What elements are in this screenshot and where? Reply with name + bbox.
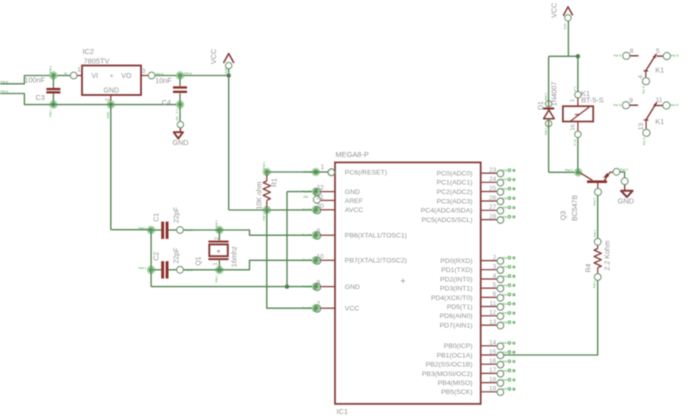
svg-text:SUP: SUP: [563, 23, 567, 29]
svg-text:GN: GN: [175, 116, 179, 120]
svg-text:19: 19: [489, 386, 497, 393]
svg-text:18: 18: [489, 376, 497, 383]
svg-text:10K ohm: 10K ohm: [257, 181, 264, 209]
svg-text:12: 12: [489, 310, 497, 317]
svg-text:2: 2: [215, 237, 221, 240]
svg-text:PD6(AIN0): PD6(AIN0): [440, 313, 473, 320]
svg-text:Q1: Q1: [196, 256, 203, 265]
svg-text:PC2(ADC2): PC2(ADC2): [437, 189, 473, 196]
svg-text:GND: GND: [173, 138, 189, 147]
svg-text:PB3(MOSI/OC2): PB3(MOSI/OC2): [422, 371, 473, 378]
svg-text:3: 3: [142, 68, 146, 75]
svg-text:22pF: 22pF: [174, 207, 181, 223]
svg-text:9: 9: [629, 98, 633, 105]
svg-text:PW D: PW D: [1, 80, 10, 84]
svg-text:PC3(ADC3): PC3(ADC3): [437, 198, 473, 205]
svg-text:2.2 Kohm: 2.2 Kohm: [605, 240, 612, 270]
svg-text:Par D: Par D: [614, 53, 623, 57]
svg-text:PC6(/RESET): PC6(/RESET): [345, 169, 387, 176]
svg-text:PD4(XCK/T0): PD4(XCK/T0): [431, 295, 473, 302]
svg-text:PW: PW: [503, 360, 508, 364]
svg-text:PW 1: PW 1: [49, 109, 53, 117]
svg-text:PW: PW: [503, 293, 508, 297]
svg-text:PW: PW: [503, 369, 508, 373]
svg-text:22pF: 22pF: [174, 248, 181, 264]
svg-text:Pad D: Pad D: [303, 189, 312, 193]
svg-text:PW: PW: [503, 341, 508, 345]
svg-text:PW: PW: [304, 195, 309, 199]
svg-text:BC547B: BC547B: [572, 195, 579, 221]
svg-text:VCC: VCC: [550, 3, 559, 18]
svg-text:Q3: Q3: [561, 211, 568, 220]
svg-text:PB5(SCK): PB5(SCK): [441, 389, 472, 396]
svg-text:MEGA8-P: MEGA8-P: [336, 150, 369, 159]
svg-text:PW: PW: [503, 169, 508, 173]
svg-text:PB1(OC1A): PB1(OC1A): [437, 352, 473, 359]
svg-text:GND: GND: [104, 87, 120, 94]
svg-text:Par D: Par D: [613, 103, 622, 107]
svg-text:VCC: VCC: [345, 306, 359, 313]
svg-text:5: 5: [493, 282, 497, 289]
svg-text:K1: K1: [655, 66, 664, 75]
svg-text:16mhz: 16mhz: [232, 246, 239, 268]
svg-text:PD5(T1): PD5(T1): [447, 304, 473, 311]
svg-text:D1: D1: [538, 101, 545, 110]
svg-text:10: 10: [317, 253, 325, 260]
svg-text:C2: C2: [153, 252, 160, 261]
svg-text:Pad D: Pad D: [303, 233, 312, 237]
svg-text:15: 15: [489, 349, 497, 356]
svg-text:PW: PW: [503, 274, 508, 278]
svg-text:13: 13: [489, 319, 497, 326]
svg-text:PD1(TXD): PD1(TXD): [441, 267, 472, 274]
svg-text:PW: PW: [503, 321, 508, 325]
svg-text:VO: VO: [121, 73, 132, 80]
svg-text:C3: C3: [36, 93, 45, 102]
svg-text:PD3(INT1): PD3(INT1): [440, 286, 472, 293]
svg-text:Pad D: Pad D: [303, 306, 312, 310]
svg-text:PW 1: PW 1: [593, 280, 597, 288]
svg-text:+: +: [400, 276, 405, 286]
svg-text:GND: GND: [345, 189, 360, 196]
svg-text:IC1: IC1: [337, 407, 349, 416]
svg-text:PW: PW: [503, 196, 508, 200]
svg-text:IC2: IC2: [83, 47, 95, 56]
svg-text:PW: PW: [503, 215, 508, 219]
svg-text:9: 9: [317, 228, 321, 235]
svg-text:PW: PW: [503, 178, 508, 182]
svg-text:16: 16: [570, 124, 576, 130]
svg-text:1N4007: 1N4007: [551, 82, 558, 107]
svg-text:P 1: P 1: [573, 86, 577, 91]
svg-text:25: 25: [489, 185, 497, 192]
svg-text:PW 1: PW 1: [215, 220, 219, 228]
svg-text:C1: C1: [153, 213, 160, 222]
svg-text:PW 1: PW 1: [262, 213, 266, 221]
svg-text:PW: PW: [503, 378, 508, 382]
svg-text:8: 8: [630, 48, 634, 55]
svg-text:PW: PW: [503, 206, 508, 210]
svg-text:2: 2: [493, 254, 497, 261]
svg-text:3: 3: [493, 264, 497, 271]
svg-text:PC4(ADC4/SDA): PC4(ADC4/SDA): [421, 208, 473, 215]
svg-text:GND: GND: [618, 196, 634, 205]
svg-text:4: 4: [493, 273, 497, 280]
svg-text:PW: PW: [503, 256, 508, 260]
svg-text:100nF: 100nF: [25, 75, 46, 84]
svg-text:PD0(RXD): PD0(RXD): [440, 258, 472, 265]
svg-text:AVCC: AVCC: [345, 207, 363, 214]
svg-text:Pad 1: Pad 1: [139, 266, 147, 270]
svg-text:11: 11: [489, 300, 496, 307]
svg-text:17: 17: [489, 367, 497, 374]
svg-text:+: +: [110, 73, 114, 80]
svg-text:22: 22: [317, 185, 325, 192]
svg-text:P 1: P 1: [175, 108, 179, 113]
svg-text:10nF: 10nF: [155, 76, 172, 85]
svg-text:AREF: AREF: [345, 198, 363, 205]
svg-text:PW 1: PW 1: [262, 161, 266, 169]
svg-text:PD7(AIN1): PD7(AIN1): [440, 323, 473, 330]
svg-text:PW D: PW D: [1, 90, 10, 94]
svg-text:14: 14: [489, 340, 497, 347]
svg-text:PW: PW: [503, 265, 508, 269]
svg-text:16: 16: [489, 358, 497, 365]
svg-text:R4: R4: [585, 263, 592, 272]
svg-text:PW D: PW D: [304, 170, 313, 174]
svg-text:PC0(ADC0): PC0(ADC0): [437, 171, 473, 178]
svg-text:SUP: SUP: [224, 68, 228, 74]
svg-text:8: 8: [317, 280, 321, 287]
svg-text:IN: IN: [64, 72, 67, 76]
svg-text:PB6(XTAL1/TOSC1): PB6(XTAL1/TOSC1): [345, 233, 407, 240]
svg-text:2: 2: [105, 98, 111, 101]
svg-text:Pad D: Pad D: [303, 258, 312, 262]
svg-text:PW 1: PW 1: [49, 65, 53, 73]
svg-text:6: 6: [493, 291, 497, 298]
svg-text:7: 7: [317, 301, 321, 308]
svg-text:24: 24: [489, 176, 497, 183]
svg-text:PW 1: PW 1: [215, 275, 219, 283]
svg-text:PW 1: PW 1: [544, 127, 548, 135]
svg-text:Par D: Par D: [671, 53, 680, 57]
svg-text:PW: PW: [503, 387, 508, 391]
svg-text:1: 1: [213, 262, 219, 265]
svg-text:PW: PW: [503, 284, 508, 288]
svg-text:Par D: Par D: [641, 85, 645, 94]
svg-text:GND: GND: [345, 284, 360, 291]
svg-text:4: 4: [638, 75, 645, 79]
svg-text:PB0(ICP): PB0(ICP): [444, 343, 473, 350]
svg-text:VCC: VCC: [209, 49, 218, 64]
svg-text:PB2(SS/OC1B): PB2(SS/OC1B): [426, 362, 473, 369]
svg-text:27: 27: [489, 204, 497, 211]
svg-text:20: 20: [317, 203, 325, 210]
svg-text:PW: PW: [503, 350, 508, 354]
svg-text:28: 28: [489, 213, 497, 220]
svg-text:PC5(ADC5/SCL): PC5(ADC5/SCL): [422, 217, 473, 224]
svg-text:PW: PW: [503, 187, 508, 191]
svg-text:PD2(INT0): PD2(INT0): [440, 276, 472, 283]
svg-text:C4: C4: [162, 98, 171, 107]
svg-text:PW 1: PW 1: [544, 93, 548, 101]
svg-text:Pad 1: Pad 1: [592, 197, 596, 205]
svg-text:7805TV: 7805TV: [84, 56, 110, 65]
svg-text:Par D: Par D: [671, 103, 680, 107]
svg-text:1: 1: [570, 99, 576, 102]
svg-text:1: 1: [77, 67, 81, 74]
svg-text:23: 23: [489, 167, 497, 174]
svg-text:5: 5: [656, 48, 660, 55]
svg-text:PW 1: PW 1: [593, 229, 597, 237]
svg-text:26: 26: [489, 195, 497, 202]
svg-text:K1: K1: [655, 117, 664, 126]
svg-text:Pad 2: Pad 2: [620, 168, 628, 172]
svg-text:PC1(ADC1): PC1(ADC1): [437, 180, 473, 187]
svg-text:+: +: [217, 248, 221, 255]
svg-text:PB4(MISO): PB4(MISO): [438, 380, 473, 387]
svg-text:1: 1: [321, 164, 325, 171]
svg-text:VI: VI: [92, 73, 99, 80]
svg-text:P 16: P 16: [573, 139, 577, 145]
svg-text:Pad D: Pad D: [303, 208, 312, 212]
svg-text:21: 21: [317, 194, 325, 201]
svg-text:PB7(XTAL2/TOSC2): PB7(XTAL2/TOSC2): [345, 258, 407, 265]
svg-text:GND: GND: [106, 111, 110, 119]
svg-text:Par D: Par D: [642, 137, 646, 146]
svg-text:R1: R1: [271, 178, 278, 187]
svg-text:PW: PW: [503, 311, 508, 315]
svg-text:Pad 2: Pad 2: [565, 168, 573, 172]
svg-text:PW: PW: [503, 302, 508, 306]
svg-text:13: 13: [638, 123, 645, 131]
svg-text:Pad D: Pad D: [303, 284, 312, 288]
svg-text:BT-5-S: BT-5-S: [581, 96, 604, 105]
